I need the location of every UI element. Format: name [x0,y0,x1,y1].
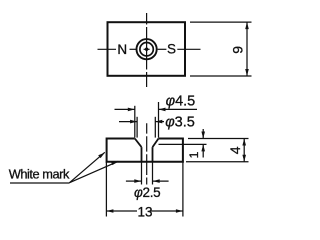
leader arrow to bottom face [111,161,118,165]
White mark underline [10,182,70,184]
dim 4 extension lines [186,139,249,162]
svg-text:9: 9 [230,46,246,54]
dim 13 extension lines [106,162,182,217]
dia 3.5 extension lines [137,117,155,138]
side view centerline [146,123,148,184]
svg-text:13: 13 [137,205,152,220]
side view outline [107,139,183,162]
dim 4 dimension line [243,139,245,162]
dia 4.5 right arrow [159,108,166,112]
dim 1 lower line [202,144,204,157]
dim 13 dimension line left [106,210,137,212]
dia 3.5 dimension line left [119,121,137,123]
svg-text:φ3.5: φ3.5 [165,114,195,130]
dim 9 dimension line [246,22,248,76]
vertical centerline (top view) [146,13,148,87]
dia 2.5 extension lines [142,162,153,185]
hole outer circle [137,39,157,59]
svg-text:S: S [167,41,176,56]
dim 9 arrow down [245,69,249,76]
dim 13 dimension line right [150,210,183,212]
dim 4 arrow up [242,139,246,146]
dim 13 right arrow [176,209,183,213]
leader line to bottom face [70,161,119,182]
dia 2.5 dimension line right [153,180,169,182]
dia 2.5 left arrow [134,179,141,183]
svg-text:N: N [117,42,127,57]
svg-text:φ4.5: φ4.5 [166,94,196,110]
dia 4.5 dimension line left [115,108,135,110]
center dot [145,48,148,51]
svg-text:1: 1 [187,151,201,158]
dim 4 arrow down [242,155,246,162]
dia 3.5 left arrow [130,120,137,124]
dia 2.5 dimension line left [126,180,141,182]
leader arrow to left face [98,153,105,159]
dim 9 extension lines [190,22,252,76]
svg-text:White mark: White mark [9,167,70,182]
dim 1 upper line [202,129,204,139]
hole walls [142,147,153,162]
horizontal centerline (top view) [98,48,201,50]
depth 1 reference line [159,143,207,145]
svg-text:φ2.5: φ2.5 [134,185,160,200]
dim 1 upper arrow [201,132,205,139]
countersink taper [135,139,159,148]
dia 3.5 dimension line right [155,121,164,123]
dia 4.5 extension lines [135,102,159,138]
dim 9 arrow up [245,22,249,29]
dia 2.5 right arrow [153,179,160,183]
dia 4.5 dimension line right [159,108,198,110]
dim 13 left arrow [106,209,113,213]
dia 3.5 right arrow [155,120,162,124]
top view magnet outline [108,22,186,76]
svg-text:4: 4 [227,146,243,154]
dim 1 lower arrow [201,144,205,151]
hole inner circle [140,43,153,56]
dia 4.5 left arrow [128,108,135,112]
leader line to left face [70,152,105,182]
